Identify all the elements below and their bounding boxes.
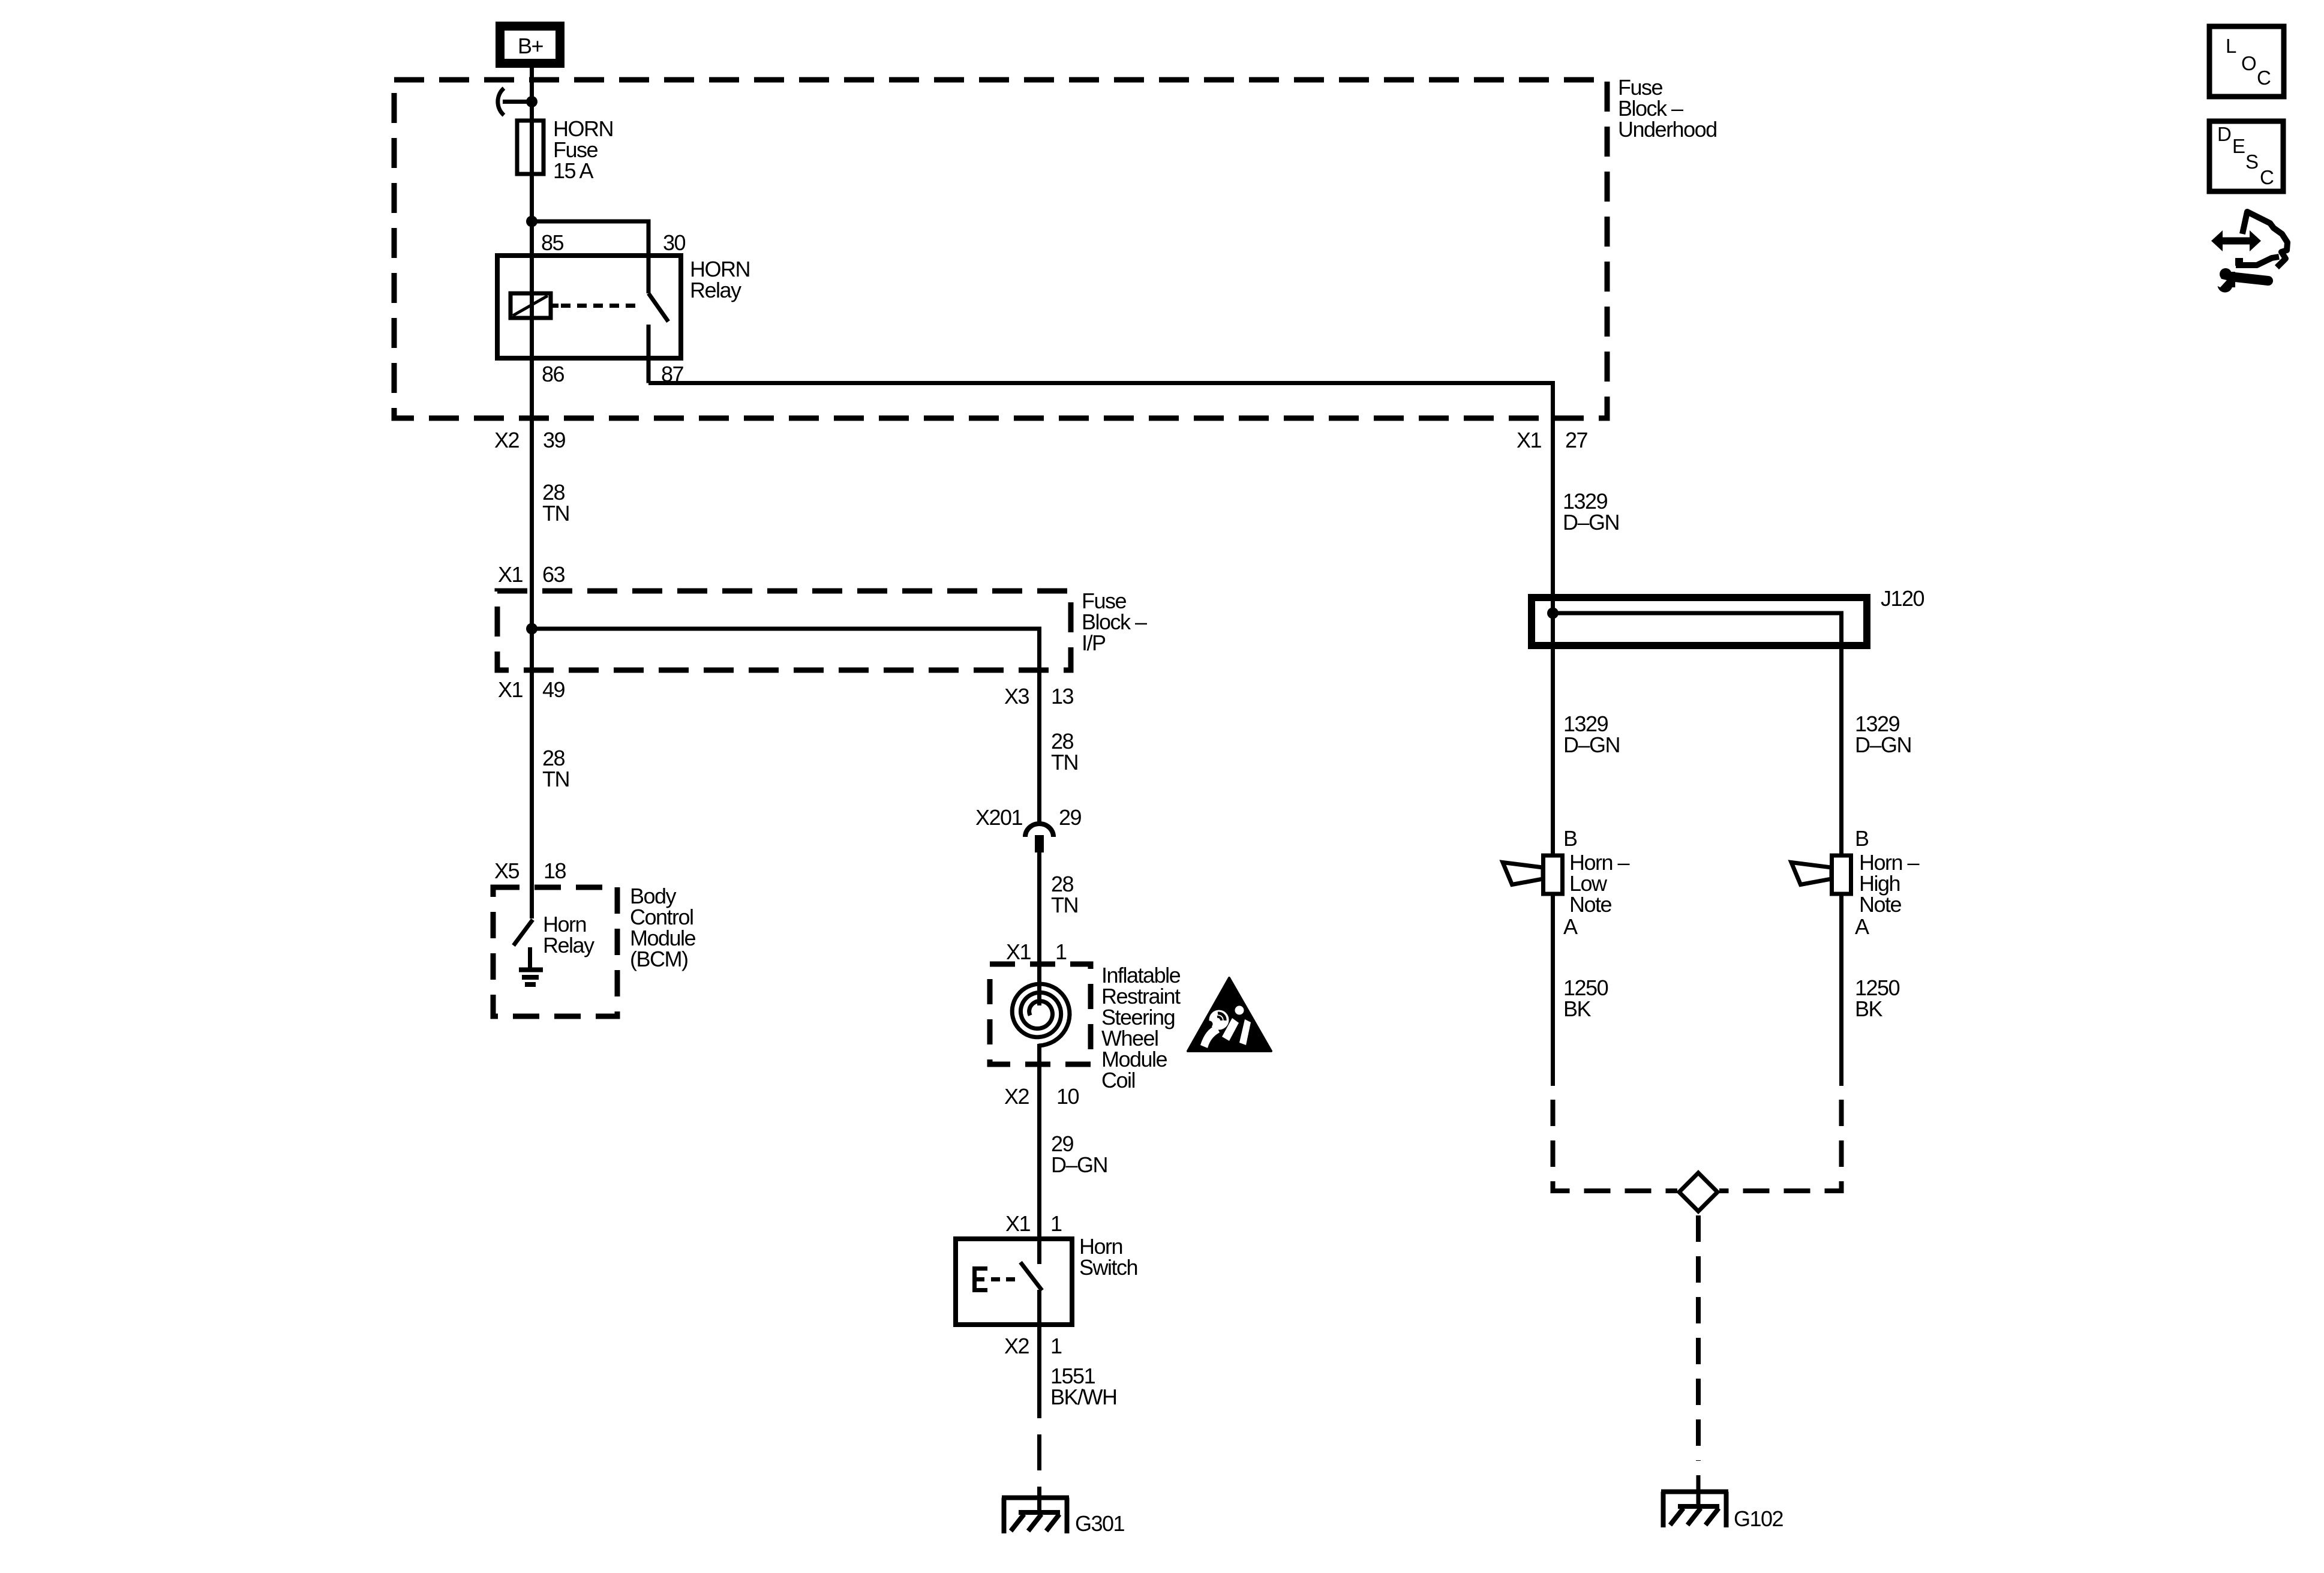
svg-text:X1: X1	[1005, 1211, 1031, 1236]
steering wheel module coil dashed outline	[990, 964, 1091, 1064]
fuse block I/P dashed outline	[497, 591, 1071, 670]
BCM dashed outline	[493, 887, 617, 1016]
svg-text:Relay: Relay	[690, 278, 741, 302]
svg-text:Underhood: Underhood	[1618, 117, 1717, 142]
svg-text:63: 63	[542, 562, 565, 587]
LOC legend box	[2209, 26, 2284, 97]
svg-text:Coil: Coil	[1101, 1068, 1135, 1092]
wire horn switch to ground	[1037, 1290, 1041, 1418]
svg-text:1: 1	[1050, 1211, 1062, 1236]
fusible-link tap symbol	[498, 88, 504, 115]
svg-text:TN: TN	[542, 501, 569, 526]
svg-text:X1: X1	[1006, 939, 1031, 964]
wire I/P junction to middle branch	[532, 629, 1040, 824]
junction node below fuse	[526, 216, 538, 227]
svg-text:D–GN: D–GN	[1855, 733, 1911, 757]
svg-text:X2: X2	[1004, 1334, 1029, 1358]
svg-text:BK: BK	[1563, 996, 1592, 1021]
svg-text:15 A: 15 A	[553, 158, 594, 183]
svg-text:Relay: Relay	[543, 933, 594, 957]
svg-text:X1: X1	[1517, 428, 1542, 452]
underhood service icon	[2211, 212, 2287, 293]
svg-text:TN: TN	[1051, 893, 1078, 917]
in-line connector X201 pin 29	[1025, 824, 1053, 852]
svg-text:I/P: I/P	[1082, 631, 1106, 655]
BCM internal ground	[519, 947, 543, 984]
svg-text:TN: TN	[1051, 750, 1078, 775]
relay coil	[511, 293, 559, 318]
svg-text:39: 39	[543, 428, 566, 452]
svg-text:Note: Note	[1569, 892, 1612, 917]
wire below right horn	[1839, 894, 1843, 1086]
svg-text:D–GN: D–GN	[1563, 733, 1620, 757]
horn switch E actuator	[972, 1266, 987, 1292]
svg-text:85: 85	[541, 230, 564, 255]
svg-text:X2: X2	[494, 428, 520, 452]
horn switch box	[956, 1239, 1072, 1325]
svg-text:X201: X201	[975, 805, 1023, 830]
coil spiral (clockspring)	[1012, 984, 1070, 1046]
ground G301	[1002, 1498, 1069, 1534]
junction node at tap	[526, 96, 538, 107]
svg-text:G102: G102	[1734, 1506, 1783, 1531]
svg-text:D–GN: D–GN	[1563, 510, 1619, 535]
svg-text:Note: Note	[1859, 892, 1902, 917]
junction node in J120	[1547, 608, 1559, 619]
splice diamond	[1679, 1173, 1718, 1211]
svg-text:27: 27	[1565, 428, 1588, 452]
svg-text:D: D	[2217, 123, 2231, 145]
wire tap to main	[503, 100, 532, 104]
svg-text:X2: X2	[1004, 1084, 1029, 1109]
svg-text:TN: TN	[542, 767, 569, 791]
svg-text:1: 1	[1050, 1334, 1062, 1358]
relay actuator dashed link	[561, 304, 639, 308]
svg-text:49: 49	[542, 677, 565, 702]
horn high note symbol	[1791, 855, 1851, 894]
wire X201 to coil	[1037, 852, 1041, 1005]
wire pin 87 to X1 27	[648, 383, 1553, 614]
svg-text:18: 18	[544, 858, 566, 883]
dashed wire segments to G301	[1037, 1434, 1041, 1470]
svg-text:X1: X1	[498, 562, 523, 587]
svg-text:86: 86	[542, 362, 565, 386]
relay switch blade	[648, 293, 668, 322]
svg-text:J120: J120	[1881, 586, 1924, 611]
horn low note symbol	[1503, 855, 1563, 894]
relay switch contact pin 30	[647, 256, 651, 293]
svg-text:S: S	[2245, 151, 2258, 173]
svg-text:B+: B+	[518, 34, 544, 58]
horn switch actuator dashes	[991, 1277, 1019, 1281]
svg-text:30: 30	[663, 230, 686, 255]
splice pack J120 box	[1532, 598, 1867, 646]
svg-text:BK/WH: BK/WH	[1050, 1385, 1117, 1409]
dashed wire right horn to splice	[1719, 1100, 1842, 1191]
horn switch blade	[1020, 1262, 1042, 1290]
dashed wire splice to G102	[1696, 1215, 1701, 1461]
fuse block underhood dashed outline	[394, 80, 1607, 418]
relay HORN Relay box	[497, 256, 681, 358]
svg-text:X5: X5	[494, 858, 520, 883]
svg-text:D–GN: D–GN	[1051, 1152, 1107, 1177]
wire coil to horn switch	[1037, 1044, 1041, 1264]
svg-text:X1: X1	[498, 677, 523, 702]
svg-text:A: A	[1563, 914, 1578, 939]
wire below left horn	[1551, 894, 1555, 1086]
svg-text:C: C	[2257, 67, 2271, 89]
svg-text:29: 29	[1059, 805, 1082, 830]
fuse HORN Fuse 15 A	[517, 121, 544, 174]
power symbol B+	[496, 22, 565, 68]
junction node in I/P fuse block	[526, 623, 538, 635]
BCM horn relay switch blade	[514, 920, 533, 945]
SIR warning triangle	[1188, 978, 1271, 1051]
svg-text:BK: BK	[1855, 996, 1883, 1021]
relay switch contact pin 87	[647, 325, 651, 383]
svg-text:G301: G301	[1075, 1511, 1125, 1536]
svg-text:X3: X3	[1004, 684, 1029, 709]
wire to relay pin 30	[532, 221, 649, 256]
svg-text:A: A	[1855, 914, 1869, 939]
svg-text:E: E	[2232, 135, 2245, 157]
svg-text:O: O	[2241, 52, 2256, 74]
svg-text:1: 1	[1055, 939, 1067, 964]
DESC legend box	[2209, 121, 2283, 191]
svg-text:Switch: Switch	[1079, 1255, 1137, 1280]
svg-text:10: 10	[1056, 1084, 1079, 1109]
wire left horn branch	[1551, 613, 1555, 855]
svg-text:B: B	[1855, 826, 1869, 851]
wire J120 bus to right branch	[1553, 613, 1842, 855]
svg-text:13: 13	[1051, 684, 1074, 709]
ground G102	[1661, 1492, 1728, 1528]
svg-text:B: B	[1563, 826, 1577, 851]
svg-text:L: L	[2226, 35, 2236, 57]
svg-text:(BCM): (BCM)	[630, 947, 687, 971]
svg-text:C: C	[2260, 166, 2274, 188]
dashed wire left horn to splice	[1553, 1100, 1678, 1191]
wire B+ feed (main left vertical, pin 85 / 86 path)	[530, 68, 534, 918]
